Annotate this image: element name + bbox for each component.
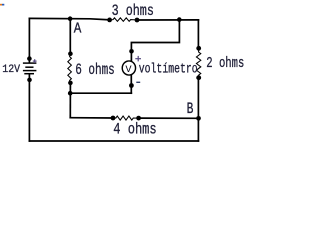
svg-text:2 ohms: 2 ohms — [206, 56, 244, 72]
svg-text:B: B — [187, 100, 194, 118]
svg-text:3 ohms: 3 ohms — [112, 2, 154, 20]
svg-text:V: V — [125, 64, 132, 76]
svg-text:12V: 12V — [2, 64, 20, 76]
svg-text:6 ohms: 6 ohms — [75, 61, 115, 79]
svg-text:voltímetro: voltímetro — [139, 62, 198, 78]
svg-text:4 ohms: 4 ohms — [113, 121, 157, 139]
svg-text:A: A — [74, 20, 82, 38]
